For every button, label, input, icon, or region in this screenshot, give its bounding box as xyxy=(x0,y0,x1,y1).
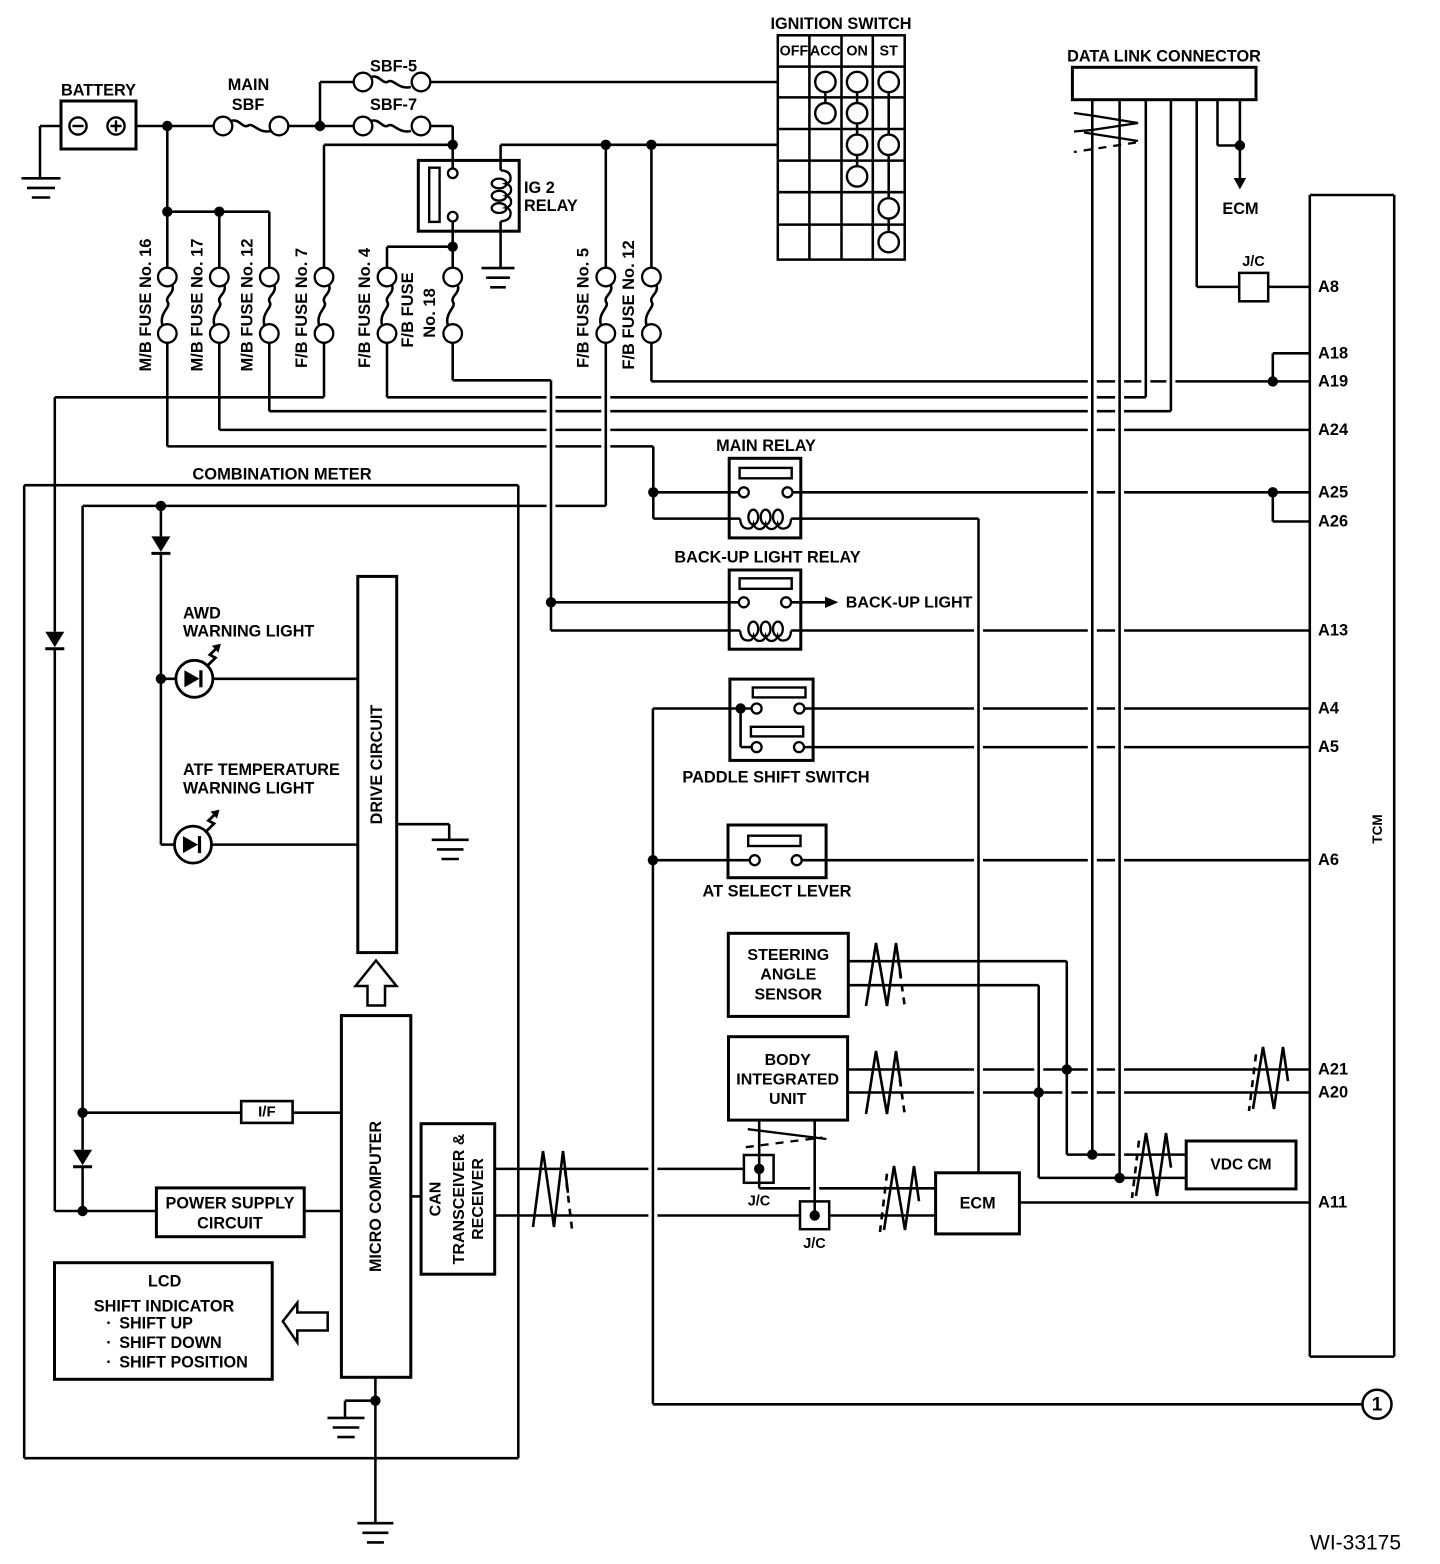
wire fuse5 to meter xyxy=(83,343,606,506)
svg-text:COMBINATION METER: COMBINATION METER xyxy=(192,466,371,484)
svg-text:OFF: OFF xyxy=(780,44,809,60)
svg-text:A25: A25 xyxy=(1318,483,1348,501)
wire meter main ground xyxy=(374,1401,377,1524)
label WI-33175 xyxy=(1310,1532,1401,1555)
wire A18 stub xyxy=(1273,353,1310,381)
svg-text:ECM: ECM xyxy=(1222,200,1258,218)
wire CAN-H to VDC xyxy=(1067,1153,1186,1156)
arrow micro to LCD xyxy=(283,1303,328,1343)
node meter lamp feed xyxy=(156,501,166,511)
coil backup relay xyxy=(740,622,791,641)
node JC2 xyxy=(810,1210,820,1220)
pin paddle up left xyxy=(752,704,762,714)
svg-text:POWER SUPPLY: POWER SUPPLY xyxy=(166,1195,295,1213)
fuse F/B No.7 xyxy=(293,248,333,368)
fuse F/B No.4 xyxy=(356,247,396,368)
pin AT lever left xyxy=(750,855,760,865)
module MICRO COMPUTER xyxy=(341,1016,410,1378)
svg-text:A18: A18 xyxy=(1318,344,1348,362)
svg-text:BACK-UP LIGHT: BACK-UP LIGHT xyxy=(846,593,973,611)
svg-text:STEERING: STEERING xyxy=(747,947,829,964)
wire DLC pin3 xyxy=(1145,100,1148,398)
ground drive circuit xyxy=(432,840,469,859)
module DRIVE CIRCUIT xyxy=(358,576,397,952)
diode meter D3 xyxy=(73,1150,92,1167)
offpage connector 1 xyxy=(1363,1390,1392,1419)
svg-text:INTEGRATED: INTEGRATED xyxy=(736,1072,839,1089)
wire paddle internal xyxy=(741,709,752,748)
node backup relay feed xyxy=(546,597,556,607)
twisted pair VDC xyxy=(1132,1133,1171,1198)
svg-text:CAN: CAN xyxy=(428,1182,445,1217)
twisted pair meter CAN xyxy=(533,1151,572,1229)
svg-text:WI-33175: WI-33175 xyxy=(1310,1532,1401,1555)
node fuse12 tap xyxy=(646,140,656,150)
node SBF-7 drop xyxy=(448,140,458,150)
node CAN-H DLC junction xyxy=(1087,1149,1097,1159)
svg-text:SHIFT POSITION: SHIFT POSITION xyxy=(119,1354,248,1372)
wire power feed xyxy=(81,1113,84,1211)
pin IG2 relay contact top xyxy=(448,169,458,179)
fuse M/B No.16 xyxy=(137,239,177,372)
ground meter main xyxy=(357,1523,393,1542)
svg-text:·: · xyxy=(106,1334,111,1352)
wire drive circuit ground lead xyxy=(397,824,450,840)
pin backup relay left xyxy=(739,597,749,607)
LED ATF warning light xyxy=(175,761,340,863)
wire A25 net xyxy=(793,491,1310,494)
svg-text:I/F: I/F xyxy=(258,1104,276,1121)
svg-text:J/C: J/C xyxy=(1242,254,1265,270)
arrow micro to drive xyxy=(356,961,397,1006)
ground meter internal xyxy=(328,1418,365,1437)
svg-text:F/B FUSE No. 12: F/B FUSE No. 12 xyxy=(620,240,638,369)
wire A19 net xyxy=(651,343,1309,382)
pin main relay right xyxy=(783,487,793,497)
wire DLC pin6 xyxy=(1218,100,1240,146)
wire fuse18 drop to backup relay xyxy=(551,380,740,630)
relay IG2 box xyxy=(418,160,578,231)
svg-text:TCM: TCM xyxy=(1370,814,1385,843)
svg-text:BATTERY: BATTERY xyxy=(61,82,136,100)
wire A13 net xyxy=(791,629,1310,632)
svg-text:ECM: ECM xyxy=(960,1194,996,1212)
svg-text:SBF-5: SBF-5 xyxy=(370,58,417,76)
battery B1 xyxy=(61,82,136,150)
wire fuse18 to backup relay drop xyxy=(453,343,551,381)
sensor STEERING ANGLE SENSOR xyxy=(728,933,848,1016)
svg-text:F/B FUSE No. 5: F/B FUSE No. 5 xyxy=(575,248,593,368)
svg-text:A21: A21 xyxy=(1318,1061,1348,1079)
wire JC2 to ECM xyxy=(829,1214,935,1217)
pin IG2 relay contact bottom xyxy=(448,212,458,222)
svg-text:·: · xyxy=(106,1354,111,1372)
fuse M/B No.12 xyxy=(239,239,279,372)
twisted pair body out xyxy=(866,1051,905,1116)
fuse SBF-5 xyxy=(354,58,431,92)
wire AT lever feed xyxy=(653,859,750,862)
node MB bus left xyxy=(162,207,172,217)
module VDC CM xyxy=(1186,1141,1296,1189)
node AT lever tap xyxy=(648,855,658,865)
svg-text:LCD: LCD xyxy=(148,1273,182,1291)
wire AWD LED to drive circuit xyxy=(161,678,358,681)
svg-text:SENSOR: SENSOR xyxy=(755,986,823,1003)
node IF tap xyxy=(77,1108,87,1118)
wire meter internal feed drop xyxy=(81,506,84,1113)
wire DLC pin7 to ECM xyxy=(1239,100,1242,180)
fuse SBF-7 xyxy=(354,96,431,135)
wire fuse7 feed xyxy=(324,145,453,268)
switch AT SELECT LEVER xyxy=(702,825,851,901)
module TCM outline xyxy=(1310,195,1394,1357)
pin main relay left xyxy=(739,487,749,497)
node fuse5 tap xyxy=(601,140,611,150)
wire micro to CAN xyxy=(411,1195,421,1198)
arrow BACK-UP LIGHT xyxy=(791,593,973,611)
svg-text:M/B FUSE No. 17: M/B FUSE No. 17 xyxy=(189,239,207,372)
wire fuse4 feed xyxy=(387,247,453,268)
svg-text:SBF: SBF xyxy=(232,96,265,114)
wire main SBF to SBF branch xyxy=(288,125,353,128)
node power junction xyxy=(77,1206,87,1216)
wire relay output to fuses xyxy=(451,221,454,267)
wire A24 net xyxy=(219,343,1310,430)
svg-text:F/B FUSE No. 4: F/B FUSE No. 4 xyxy=(356,247,374,368)
junction connector J/C A8 xyxy=(1239,254,1268,301)
svg-text:A6: A6 xyxy=(1318,851,1339,869)
diode meter D2 xyxy=(45,632,64,649)
pin paddle up right xyxy=(794,704,804,714)
wire DLC pin1 CAN-H xyxy=(1091,100,1094,1155)
svg-text:MICRO COMPUTER: MICRO COMPUTER xyxy=(367,1121,385,1272)
svg-text:AWD: AWD xyxy=(183,605,221,623)
twisted pair TCM A21 A20 xyxy=(1249,1047,1288,1111)
fuse M/B No.17 xyxy=(189,239,229,372)
svg-text:F/B FUSE: F/B FUSE xyxy=(399,272,417,347)
arrow to ECM xyxy=(1222,178,1258,218)
wire paddle select common xyxy=(653,709,752,1405)
wire fuse7 to meter xyxy=(55,343,324,398)
module ECM xyxy=(936,1173,1020,1234)
svg-text:UNIT: UNIT xyxy=(769,1091,807,1108)
svg-text:IGNITION SWITCH: IGNITION SWITCH xyxy=(770,15,911,33)
svg-text:SHIFT DOWN: SHIFT DOWN xyxy=(119,1334,222,1352)
pin paddle down right xyxy=(794,742,804,752)
svg-text:1: 1 xyxy=(1372,1394,1383,1415)
ground IG2 relay xyxy=(482,268,515,287)
svg-text:SBF-7: SBF-7 xyxy=(370,96,417,114)
wire power to micro xyxy=(304,1210,341,1213)
svg-text:A24: A24 xyxy=(1318,421,1349,439)
wire A26 stub xyxy=(1273,492,1310,521)
wire A11 net xyxy=(1019,1201,1309,1204)
node JC1 xyxy=(754,1164,764,1174)
wire battery to MB fuses xyxy=(167,126,269,268)
wire battery negative xyxy=(40,126,61,177)
wire fuse5 drop xyxy=(605,145,608,268)
pin AT lever right xyxy=(792,855,802,865)
junction connector J/C 1 xyxy=(744,1155,774,1210)
svg-text:BODY: BODY xyxy=(765,1052,812,1069)
relay BACK-UP LIGHT RELAY xyxy=(674,549,860,650)
pin paddle down left xyxy=(752,742,762,752)
node A25-A26 junction xyxy=(1268,487,1278,497)
svg-text:J/C: J/C xyxy=(803,1236,826,1252)
svg-text:ST: ST xyxy=(880,44,899,60)
coil main relay xyxy=(740,510,791,529)
wire fuse7 to power xyxy=(55,1210,157,1213)
wire select common to page connector xyxy=(653,1403,1362,1406)
node battery feed xyxy=(162,121,172,131)
node CAN-L DLC junction xyxy=(1114,1173,1124,1183)
svg-text:RECEIVER: RECEIVER xyxy=(470,1158,487,1240)
svg-text:CIRCUIT: CIRCUIT xyxy=(197,1215,263,1233)
wire fuse12 drop xyxy=(650,145,653,268)
svg-text:A26: A26 xyxy=(1318,513,1348,531)
module BODY INTEGRATED UNIT xyxy=(729,1037,848,1120)
node A21 steering junction xyxy=(1062,1064,1072,1074)
node DLC ECM junction xyxy=(1235,140,1245,150)
svg-text:A20: A20 xyxy=(1318,1084,1348,1102)
fuse F/B No.5 xyxy=(575,248,616,368)
svg-text:AT SELECT LEVER: AT SELECT LEVER xyxy=(702,883,851,901)
svg-text:TRANSCEIVER &: TRANSCEIVER & xyxy=(451,1133,468,1264)
svg-text:A5: A5 xyxy=(1318,738,1339,756)
svg-text:A19: A19 xyxy=(1318,372,1348,390)
wire fuse16 to main relay xyxy=(167,343,653,519)
wire A6 net xyxy=(802,859,1310,862)
node AWD branch xyxy=(156,674,166,684)
svg-text:M/B FUSE No. 12: M/B FUSE No. 12 xyxy=(239,239,257,372)
relay MAIN RELAY xyxy=(716,437,816,538)
svg-text:A8: A8 xyxy=(1318,278,1339,296)
svg-text:BACK-UP LIGHT RELAY: BACK-UP LIGHT RELAY xyxy=(674,549,860,567)
wire meter CAN-L xyxy=(495,1214,800,1217)
wire main relay coil to ECM xyxy=(791,519,978,1173)
fuse F/B No.12 xyxy=(620,240,661,369)
twisted pair steering xyxy=(866,943,905,1008)
wire DLC pin4 xyxy=(1170,100,1173,412)
connector DATA LINK CONNECTOR xyxy=(1067,48,1261,100)
node SBF branch xyxy=(315,121,325,131)
svg-text:SHIFT INDICATOR: SHIFT INDICATOR xyxy=(94,1297,235,1315)
block LCD SHIFT INDICATOR xyxy=(55,1263,273,1380)
svg-text:WARNING LIGHT: WARNING LIGHT xyxy=(183,780,314,798)
svg-text:A13: A13 xyxy=(1318,622,1348,640)
wire JC1 to ECM xyxy=(759,1169,935,1188)
wire small ground stub xyxy=(345,1401,375,1418)
wire IF line xyxy=(83,1111,342,1114)
coil IG2 relay xyxy=(492,145,511,231)
twisted pair body pins xyxy=(746,1129,827,1147)
svg-text:J/C: J/C xyxy=(748,1194,771,1210)
svg-text:ACC: ACC xyxy=(810,44,841,60)
module CAN TRANSCEIVER & RECEIVER xyxy=(421,1124,495,1275)
twisted pair ECM lines xyxy=(880,1166,919,1232)
switch PADDLE SHIFT SWITCH xyxy=(682,679,869,786)
svg-text:PADDLE SHIFT SWITCH: PADDLE SHIFT SWITCH xyxy=(682,769,869,787)
wire lamp chain xyxy=(160,506,163,845)
node MB bus mid xyxy=(214,207,224,217)
svg-text:WARNING LIGHT: WARNING LIGHT xyxy=(183,623,314,641)
svg-text:RELAY: RELAY xyxy=(524,197,578,215)
ignition switch SW1 xyxy=(770,15,911,260)
wire micro ground lead xyxy=(374,1377,377,1400)
svg-text:·: · xyxy=(106,1314,111,1332)
wire body pin1 xyxy=(758,1120,761,1169)
node micro ground junction xyxy=(370,1396,380,1406)
node A20 steering junction xyxy=(1034,1087,1044,1097)
wire ATF LED to drive circuit xyxy=(161,843,358,846)
wire A21 net xyxy=(848,1068,1310,1071)
svg-text:A11: A11 xyxy=(1318,1194,1347,1212)
svg-text:ANGLE: ANGLE xyxy=(760,967,816,984)
block POWER SUPPLY CIRCUIT xyxy=(156,1188,304,1237)
wire fuse7 meter drop xyxy=(54,397,57,1211)
wire ignition feed bus xyxy=(501,144,778,147)
wire battery positive to main fuse xyxy=(136,125,214,128)
wire steering CAN-L xyxy=(848,985,1038,1178)
svg-text:ON: ON xyxy=(846,44,867,60)
svg-text:A4: A4 xyxy=(1318,700,1340,718)
wire MB fuse12 to DLC xyxy=(269,343,1171,411)
TCM pin labels xyxy=(1318,278,1349,1212)
svg-text:MAIN: MAIN xyxy=(228,76,270,94)
junction connector J/C 2 xyxy=(800,1201,829,1252)
wire SBF-5 to ignition switch xyxy=(430,81,778,84)
LED AWD warning light xyxy=(176,605,314,698)
fuse F/B No.18 xyxy=(399,268,462,348)
wire DLC pin5 to JC xyxy=(1197,100,1240,287)
ground battery xyxy=(22,178,61,197)
wire meter CAN-H xyxy=(495,1168,744,1171)
wire SBF-5 branch riser xyxy=(320,82,354,126)
wire fuse4 to DLC xyxy=(387,343,1146,398)
svg-text:M/B FUSE No. 16: M/B FUSE No. 16 xyxy=(137,239,155,372)
module COMBINATION METER xyxy=(24,466,518,1459)
diode meter D1 xyxy=(151,536,170,553)
fuse MAIN SBF xyxy=(214,76,289,135)
svg-text:DRIVE CIRCUIT: DRIVE CIRCUIT xyxy=(368,705,386,825)
svg-text:VDC CM: VDC CM xyxy=(1210,1157,1271,1174)
wire steering CAN-H xyxy=(848,961,1067,1154)
wire A20 net xyxy=(848,1091,1310,1094)
svg-text:No. 18: No. 18 xyxy=(421,288,439,338)
wire DLC pin2 CAN-L xyxy=(1118,100,1121,1178)
node A19-A18 junction xyxy=(1268,376,1278,386)
wire JC to TCM A8 xyxy=(1268,286,1310,289)
wire body pin2 xyxy=(813,1120,816,1215)
node paddle common xyxy=(735,703,745,713)
wire CAN-L to VDC xyxy=(1039,1177,1187,1180)
svg-text:F/B FUSE No. 7: F/B FUSE No. 7 xyxy=(293,248,311,368)
wire SBF-7 to IG2 relay xyxy=(430,126,452,169)
wire IG2 coil ground lead xyxy=(499,231,502,267)
wire A4 net xyxy=(804,707,1309,710)
svg-text:DATA LINK CONNECTOR: DATA LINK CONNECTOR xyxy=(1067,48,1261,66)
svg-text:IG 2: IG 2 xyxy=(524,179,555,197)
node fuse4-18 junction xyxy=(448,242,458,252)
pin backup relay right xyxy=(781,597,791,607)
wire main relay feed xyxy=(648,487,740,519)
wire A5 net xyxy=(804,746,1310,749)
svg-text:SHIFT UP: SHIFT UP xyxy=(119,1314,193,1332)
block I/F xyxy=(241,1101,292,1123)
twisted pair DLC xyxy=(1074,113,1138,152)
svg-text:MAIN RELAY: MAIN RELAY xyxy=(716,437,816,455)
svg-text:ATF TEMPERATURE: ATF TEMPERATURE xyxy=(183,761,340,779)
